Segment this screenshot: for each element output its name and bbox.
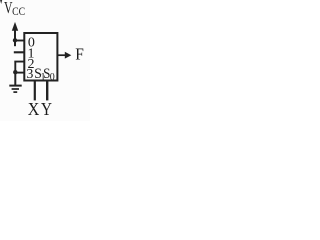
wire VCC to input 0 <box>15 40 25 42</box>
wire select S0 from Y <box>46 81 48 100</box>
junction dot on VCC rail <box>13 38 17 42</box>
junction dot on ground rail <box>13 70 17 74</box>
svg-text:0: 0 <box>50 72 55 83</box>
wire VCC to input 1 <box>14 51 25 53</box>
select label S1 <box>34 66 45 83</box>
wire ground to input 3 <box>15 72 24 74</box>
wire output F <box>58 52 71 59</box>
svg-text:CC: CC <box>12 4 25 18</box>
power arrow to VCC <box>12 22 18 31</box>
svg-text:X: X <box>28 99 40 119</box>
svg-text:F: F <box>75 45 84 64</box>
multiplexer box U1 <box>24 33 57 81</box>
ground <box>9 86 21 93</box>
power supply VCC label <box>4 0 25 18</box>
wire ground rail <box>14 72 16 85</box>
wire ground to input 2 <box>14 62 24 72</box>
svg-text:3: 3 <box>26 67 33 82</box>
svg-text:Y: Y <box>41 99 52 119</box>
wire select S1 from X <box>34 81 36 100</box>
wire VCC rail <box>14 30 16 47</box>
select label S0 <box>43 66 55 83</box>
